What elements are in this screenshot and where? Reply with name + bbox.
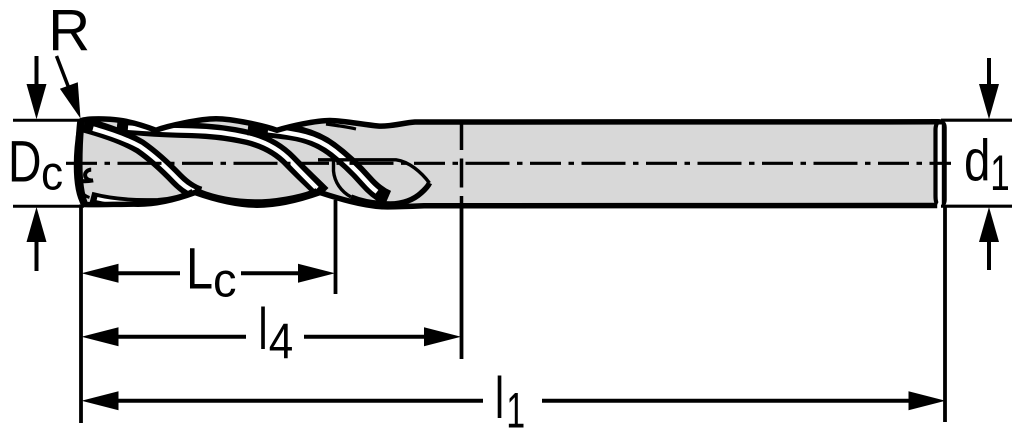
center line dash-dot: [66, 162, 951, 165]
tool body fill: [77, 119, 945, 207]
svg-text:D: D: [8, 130, 42, 195]
Dc arrow up: [27, 207, 47, 242]
R leader line: [57, 56, 72, 95]
svg-text:R: R: [48, 0, 90, 63]
dimension l1 arrow left: [82, 391, 119, 410]
d1 arrow up: [979, 207, 999, 242]
svg-text:c: c: [213, 254, 237, 308]
left face edge emphasis: [79, 121, 85, 205]
svg-text:l: l: [258, 296, 267, 361]
flute band 1 (black band): [84, 125, 200, 194]
heel band 2 white sliver: [204, 196, 312, 205]
top extension line left: [13, 119, 81, 122]
Dc arrow down: [35, 56, 39, 88]
heel band 2 (black): [198, 193, 318, 205]
flute runout pod bottom edge: [351, 183, 430, 204]
dashed transition line l4: [460, 121, 464, 206]
R leader arrowhead: [60, 82, 81, 118]
dimension Lc line left: [117, 271, 180, 275]
flute band 2 white sliver: [128, 128, 317, 189]
flute band 3 (black band): [248, 128, 388, 199]
end face inner edge line: [936, 123, 938, 205]
svg-text:d: d: [964, 129, 990, 194]
dimension l4 arrow left: [82, 327, 119, 346]
dimension Lc line right: [241, 271, 299, 275]
top extension line right: [941, 119, 1012, 122]
dimension l1 line left: [117, 399, 483, 403]
extension line at flute start: [79, 205, 83, 424]
dimension l4 line right: [304, 335, 425, 339]
svg-text:c: c: [41, 146, 63, 200]
extension line at shank end: [943, 206, 947, 423]
svg-text:1: 1: [990, 146, 1009, 202]
svg-text:1: 1: [506, 383, 525, 439]
face bottom chamfer arc: [78, 183, 90, 198]
flute runout pod top line: [318, 160, 430, 183]
flute band 2 (black band): [117, 126, 323, 194]
dimension Lc arrow right: [298, 264, 335, 283]
dimension l1 arrow right: [909, 391, 946, 410]
flute band 3 white sliver: [268, 130, 377, 192]
bottom extension line right: [941, 205, 1012, 208]
body outline stroke: [77, 119, 945, 207]
heel band 1 (black): [91, 194, 194, 204]
dimension l1 line right: [542, 399, 909, 403]
flute runout pod left corner: [334, 160, 352, 198]
dimension Lc arrow left: [82, 264, 119, 283]
svg-text:4: 4: [269, 313, 293, 369]
heel band 1 white sliver: [97, 196, 189, 203]
svg-text:L: L: [186, 238, 213, 302]
bottom extension line left: [13, 205, 84, 208]
hump3 margin knot line: [326, 124, 356, 129]
flute band 1 white sliver: [93, 129, 194, 192]
extension line at l4 end: [460, 206, 464, 359]
face center curl: [81, 170, 94, 182]
end face white sliver: [937, 125, 942, 282]
d1 arrow down: [987, 58, 991, 88]
svg-text:l: l: [495, 365, 504, 430]
dimension l4 line left: [117, 335, 246, 339]
dimension l4 arrow right: [424, 327, 461, 346]
extension line at Lc end: [334, 200, 338, 294]
